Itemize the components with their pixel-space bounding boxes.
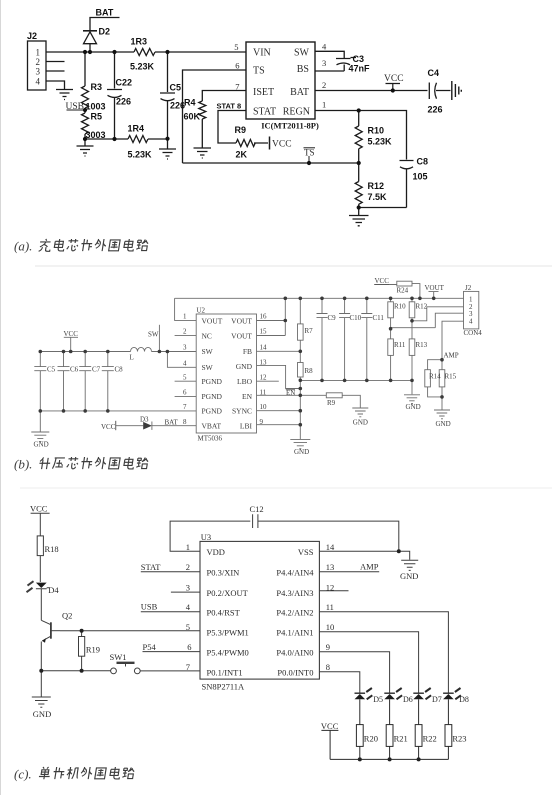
node dots R8 column (299, 387, 303, 391)
svg-text:P0.3/XIN: P0.3/XIN (207, 568, 240, 578)
svg-text:R12: R12 (416, 302, 428, 310)
svg-text:BS: BS (297, 64, 309, 75)
capacitor C8b (102, 352, 114, 411)
wire lower rail a (85, 138, 168, 140)
svg-text:5: 5 (186, 622, 190, 632)
junction dots section B (39, 297, 444, 427)
svg-text:P5.3/PWM1: P5.3/PWM1 (207, 628, 249, 638)
wire R12 bottom to C8 bottom (359, 207, 407, 209)
svg-text:SW: SW (148, 331, 159, 339)
svg-text:GND: GND (34, 441, 49, 449)
node dot R19 top (80, 629, 84, 633)
svg-text:3: 3 (183, 344, 187, 352)
svg-text:SN8P2711A: SN8P2711A (202, 681, 246, 691)
page left border (0, 0, 2, 795)
resistor R12 vertical (355, 163, 362, 208)
svg-text:C12: C12 (250, 504, 264, 514)
svg-text:ISET: ISET (253, 87, 274, 98)
chip U3 SN8P2711A box (200, 541, 319, 679)
ground under R15 (434, 410, 450, 419)
svg-text:D2: D2 (99, 27, 111, 37)
LED D6 (384, 688, 402, 725)
wire pin12 stub (319, 590, 348, 592)
svg-text:EN: EN (286, 389, 295, 397)
node USB junction (67, 109, 86, 111)
svg-text:VCC: VCC (64, 330, 79, 338)
svg-text:1R3: 1R3 (131, 37, 148, 47)
svg-text:R21: R21 (394, 734, 408, 744)
svg-text:12: 12 (260, 373, 268, 381)
svg-text:C3: C3 (353, 54, 365, 64)
svg-text:R23: R23 (452, 734, 466, 744)
wire bottom VCC rail (330, 758, 448, 760)
svg-text:STAT: STAT (141, 562, 161, 572)
wire base rail to pin5 (60, 630, 200, 632)
svg-text:R9: R9 (235, 125, 247, 135)
svg-text:VCC: VCC (101, 423, 116, 431)
svg-text:C8: C8 (115, 366, 124, 374)
svg-text:GND: GND (236, 362, 253, 371)
switch SW1 (111, 663, 141, 674)
connector J2 (28, 41, 47, 90)
svg-text:AMP: AMP (360, 562, 379, 572)
wire ISET to R4 (202, 91, 246, 102)
resistor R12b (409, 298, 415, 321)
node dot VCC-BAT (391, 88, 395, 92)
node dots FB (299, 350, 303, 354)
node dots main rail (83, 50, 87, 54)
wire pin9 to D6 (319, 652, 389, 693)
svg-text:1: 1 (36, 48, 41, 58)
junction dots section C (39, 549, 420, 761)
wire J2b pin3 route (391, 313, 464, 328)
svg-text:5: 5 (234, 42, 238, 52)
svg-text:REGN: REGN (283, 107, 310, 118)
svg-text:R3: R3 (91, 82, 103, 92)
svg-text:7.5K: 7.5K (368, 192, 388, 202)
resistor R3 vertical (82, 52, 89, 110)
svg-text:R22: R22 (423, 734, 437, 744)
svg-text:C22: C22 (116, 78, 133, 88)
ground under R8 column (290, 439, 310, 448)
wire REGN pin1 rail (315, 111, 407, 160)
svg-text:STAT: STAT (253, 107, 276, 118)
svg-text:226: 226 (116, 97, 131, 107)
ground under R13 (404, 395, 420, 404)
wire FB pin14 (257, 350, 301, 352)
svg-text:VCC: VCC (30, 504, 48, 514)
svg-text:3003: 3003 (86, 130, 106, 140)
svg-text:VCC: VCC (272, 140, 292, 150)
wire pin2 stub (46, 61, 65, 63)
ground under J2 pin4 (56, 90, 73, 100)
svg-text:6: 6 (187, 642, 191, 652)
svg-text:PGND: PGND (202, 377, 223, 386)
svg-text:VIN: VIN (253, 48, 271, 59)
node dot pin16 (284, 319, 288, 323)
wire pin1 VDD loop to C12 (170, 521, 250, 551)
svg-text:D4: D4 (48, 585, 59, 595)
svg-text:P0.2/XOUT: P0.2/XOUT (207, 588, 249, 598)
svg-text:BAT: BAT (96, 8, 114, 18)
wire pin16 pin15 to top rail (257, 298, 286, 335)
svg-text:EN: EN (242, 392, 253, 401)
svg-text:R12: R12 (368, 181, 385, 191)
svg-text:13: 13 (260, 358, 268, 366)
wire pin3 stub (171, 591, 200, 593)
capacitor C11 (361, 298, 372, 380)
capacitor C4 (429, 83, 450, 100)
svg-text:15: 15 (260, 328, 268, 336)
svg-text:9: 9 (260, 418, 264, 426)
resistor R22 (415, 725, 422, 760)
resistor R19 (79, 631, 85, 671)
capacitor C9 (317, 298, 328, 380)
svg-text:D7: D7 (432, 695, 442, 704)
LEDs and resistor ladder (321, 688, 461, 759)
svg-text:C5: C5 (170, 83, 182, 93)
svg-text:R11: R11 (394, 341, 406, 349)
node dots emitter rail (39, 669, 43, 673)
svg-text:GND: GND (353, 419, 368, 427)
texts section A (27, 8, 443, 203)
texts section B (34, 277, 483, 456)
svg-text:VOUT: VOUT (231, 316, 252, 325)
wire pin9 stub (257, 424, 301, 426)
ground under R12 (349, 208, 369, 226)
ground at R9b (352, 408, 368, 417)
svg-text:226: 226 (170, 101, 185, 111)
svg-text:3: 3 (36, 67, 41, 77)
inductor L (131, 347, 152, 351)
svg-text:VBAT: VBAT (202, 422, 222, 431)
svg-text:LBO: LBO (237, 377, 253, 386)
svg-text:R13: R13 (416, 341, 428, 349)
wire pin3 stub (46, 70, 65, 72)
svg-text:R10: R10 (368, 126, 385, 136)
svg-text:R4: R4 (184, 98, 196, 108)
ground under C5 (159, 139, 176, 159)
svg-text:7: 7 (183, 403, 187, 411)
svg-text:6: 6 (183, 389, 187, 397)
svg-text:2K: 2K (236, 150, 248, 160)
svg-text:13: 13 (326, 562, 335, 572)
svg-text:D5: D5 (373, 695, 383, 704)
node dot AMP (440, 358, 444, 362)
svg-text:TS: TS (253, 66, 265, 77)
wire pin11 EN to R9 (257, 394, 327, 396)
wire SW pin4 to C3 (315, 51, 344, 58)
svg-text:CON4: CON4 (464, 329, 483, 337)
svg-text:NC: NC (202, 331, 212, 340)
svg-text:AMP: AMP (444, 352, 459, 360)
svg-text:1R4: 1R4 (128, 124, 145, 134)
node dot C12-VSS (397, 549, 401, 553)
svg-text:8: 8 (183, 418, 187, 426)
svg-text:PGND: PGND (202, 407, 223, 416)
ground bottom left (31, 411, 49, 442)
svg-text:3: 3 (322, 58, 326, 68)
svg-text:47nF: 47nF (349, 64, 371, 74)
transistor Q2 (41, 620, 60, 671)
wire pin6 stub (175, 395, 197, 397)
svg-text:11: 11 (326, 602, 334, 612)
svg-text:5.23K: 5.23K (368, 137, 393, 147)
capacitor C22 (107, 52, 122, 139)
svg-text:105: 105 (413, 172, 428, 182)
wire mid rail b (300, 379, 412, 381)
resistor 1R4 horizontal (128, 136, 148, 143)
svg-text:4: 4 (36, 77, 41, 87)
svg-text:226: 226 (428, 105, 443, 115)
svg-text:USB: USB (66, 102, 84, 112)
section (c) image top border (20, 487, 552, 489)
resistor 1R3 horizontal (134, 49, 155, 56)
resistor R14 (425, 360, 442, 397)
svg-text:U2: U2 (197, 307, 206, 315)
svg-text:U3: U3 (201, 532, 211, 542)
svg-text:P0.0/INT0: P0.0/INT0 (277, 668, 313, 678)
resistor R10 vertical (355, 111, 362, 164)
diode D4 photodiode (27, 581, 50, 620)
caption (c) hanzi: dan pian ji wai wei dian lu (39, 767, 135, 779)
resistor R4 vertical (199, 101, 206, 148)
svg-text:R10: R10 (394, 302, 406, 310)
capacitor C6b (58, 352, 70, 411)
wire emitter rail (41, 670, 110, 672)
LED D8 (443, 688, 461, 725)
svg-text:VOUT: VOUT (425, 284, 445, 292)
wire pin1 loop to top rail (175, 298, 197, 320)
svg-text:L: L (130, 354, 134, 362)
svg-text:GND: GND (406, 403, 421, 411)
power VCC at D3 (115, 421, 117, 430)
svg-text:IC(MT2011-8P): IC(MT2011-8P) (261, 121, 319, 131)
svg-text:TS: TS (304, 148, 315, 158)
node TS label stub (308, 156, 310, 163)
caption (a) prefix (14, 239, 32, 254)
wire VBAT pin8 (116, 425, 197, 427)
junction dots section A (83, 50, 395, 210)
svg-text:Q2: Q2 (62, 611, 72, 621)
svg-text:P4.0/AIN0: P4.0/AIN0 (276, 647, 313, 657)
svg-text:16: 16 (260, 313, 268, 321)
svg-text:PGND: PGND (202, 392, 223, 401)
resistor R10b (388, 298, 394, 328)
wire pin8 to D5 (319, 672, 359, 693)
ground under R5 (77, 139, 94, 156)
node SW stub (158, 325, 160, 352)
caption (c) prefix (14, 767, 32, 782)
svg-text:5.23K: 5.23K (130, 62, 155, 72)
wire VSS pin14 to ground (319, 551, 409, 559)
node dots lower rail (83, 137, 87, 141)
svg-text:D6: D6 (403, 695, 413, 704)
svg-text:10: 10 (260, 403, 268, 411)
svg-text:C10: C10 (350, 314, 362, 322)
svg-text:4: 4 (469, 318, 473, 326)
caption (b) hanzi: sheng ya xin pian wai wei dian lu (39, 457, 149, 469)
svg-text:D3: D3 (140, 415, 149, 423)
svg-text:P4.2/AIN2: P4.2/AIN2 (276, 607, 313, 617)
power VOUT stub (429, 292, 439, 299)
wire pin2 stub (175, 335, 197, 337)
svg-text:C4: C4 (428, 68, 440, 78)
capacitor C5 (160, 52, 175, 139)
svg-text:P4.1/AIN1: P4.1/AIN1 (276, 628, 313, 638)
svg-text:VCC: VCC (375, 277, 390, 285)
wire STAT to R9 (218, 111, 246, 144)
wire TS net (183, 70, 359, 163)
wire pin10 to D7 (319, 632, 418, 693)
wire pin4 to ground (46, 81, 65, 89)
wire J2b pin2 route (412, 307, 464, 321)
svg-text:5.23K: 5.23K (128, 150, 153, 160)
svg-text:R7: R7 (305, 327, 314, 335)
power VCC on BAT rail (386, 84, 401, 91)
power VCC bar at R9 (269, 137, 271, 150)
resistor R21 (386, 725, 393, 760)
svg-text:5: 5 (183, 373, 187, 381)
svg-text:P5.4/PWM0: P5.4/PWM0 (207, 647, 249, 657)
svg-text:1: 1 (186, 542, 190, 552)
svg-text:R9: R9 (327, 399, 336, 407)
wire SW1 to pin7 (140, 670, 200, 672)
svg-text:2: 2 (186, 562, 190, 572)
wire pin1 J2 to VIN (46, 51, 246, 53)
resistor R23 (445, 725, 452, 760)
resistor R24 (374, 281, 420, 298)
wire left VCC rail to pin3 (40, 351, 196, 353)
diode D3 (143, 422, 152, 430)
node dot USB (83, 108, 87, 112)
wire R13 to ground (411, 380, 413, 394)
capacitor C7b (79, 352, 91, 411)
svg-text:8: 8 (326, 662, 330, 672)
capacitor C10 (339, 298, 350, 380)
svg-text:SYNC: SYNC (232, 407, 252, 416)
caption (b) prefix (14, 457, 32, 472)
capacitor C12 (253, 514, 258, 528)
ground bars after C4 (452, 81, 462, 100)
svg-text:2: 2 (322, 80, 326, 90)
svg-text:J2: J2 (27, 31, 37, 41)
node dots REGN rail (357, 108, 361, 112)
svg-text:P4.3/AIN3: P4.3/AIN3 (276, 588, 313, 598)
svg-text:STAT 8: STAT 8 (217, 102, 242, 111)
node dots bottom rail (358, 757, 362, 761)
wire C12 to VSS (258, 521, 399, 551)
node dot R14 R15 bottom (440, 395, 444, 399)
svg-text:1003: 1003 (86, 102, 106, 112)
svg-text:SW: SW (202, 347, 214, 356)
resistor R18 (37, 536, 43, 582)
svg-text:P0.4/RST: P0.4/RST (207, 607, 241, 617)
wire P54 to pin6 (143, 651, 201, 653)
node dots TS rail (307, 161, 311, 165)
wire pin13 GND route (257, 365, 301, 388)
svg-text:LBI: LBI (240, 422, 253, 431)
svg-text:C5: C5 (47, 366, 56, 374)
wire pin10 stub (257, 410, 301, 412)
wire R8 down to ground (299, 380, 301, 439)
wire pin11 to D8 (319, 612, 448, 693)
svg-text:VOUT: VOUT (202, 316, 223, 325)
svg-text:C9: C9 (328, 314, 337, 322)
svg-text:14: 14 (260, 344, 268, 352)
svg-text:(c).: (c). (14, 767, 32, 782)
wire J2b pin4 route to AMP (442, 321, 464, 360)
svg-text:12: 12 (326, 582, 335, 592)
wire BAT net (90, 18, 120, 31)
texts section C (30, 504, 469, 744)
svg-text:P54: P54 (143, 642, 157, 652)
ground bottom left c (32, 671, 51, 707)
svg-text:6: 6 (235, 61, 239, 71)
svg-text:1: 1 (322, 100, 326, 110)
svg-text:GND: GND (436, 420, 451, 428)
wire pin5 stub (175, 380, 197, 382)
LED D7 (413, 688, 431, 725)
resistor R7 (298, 298, 304, 351)
svg-text:SW: SW (294, 48, 310, 59)
svg-text:GND: GND (33, 709, 51, 719)
svg-text:3: 3 (186, 582, 190, 592)
node dots left rail (39, 350, 43, 354)
svg-text:BAT: BAT (290, 87, 309, 98)
svg-text:R8: R8 (305, 367, 314, 375)
svg-text:C11: C11 (373, 314, 385, 322)
svg-text:R5: R5 (91, 112, 103, 122)
node dots lower left rail (39, 409, 43, 413)
svg-text:MT5036: MT5036 (198, 435, 223, 443)
resistor R11b (388, 329, 394, 381)
svg-text:C8: C8 (417, 157, 429, 167)
svg-text:C7: C7 (92, 366, 101, 374)
svg-text:(b).: (b). (14, 457, 32, 472)
resistor R8 (298, 351, 304, 380)
svg-text:1: 1 (183, 313, 187, 321)
svg-text:7: 7 (186, 662, 190, 672)
wire BAT pin2 rail (315, 90, 428, 92)
svg-text:VSS: VSS (298, 547, 314, 557)
svg-text:VOUT: VOUT (231, 331, 252, 340)
svg-text:C6: C6 (70, 366, 79, 374)
svg-text:14: 14 (326, 542, 335, 552)
wire STAT to pin2 (141, 571, 200, 573)
power VCC left (64, 337, 78, 351)
capacitor C3 (315, 58, 356, 72)
svg-text:VCC: VCC (321, 721, 339, 731)
resistor R13b (409, 321, 415, 381)
svg-text:R20: R20 (364, 734, 378, 744)
LED D5 (355, 688, 373, 725)
resistor R9b (326, 393, 360, 408)
svg-text:VCC: VCC (384, 74, 404, 84)
svg-text:FB: FB (243, 347, 252, 356)
ground under R4 (194, 148, 212, 158)
wire pin4 branch (167, 352, 196, 368)
power VCC bottom (321, 730, 338, 759)
svg-text:11: 11 (260, 389, 267, 397)
power VCC top left c (31, 513, 50, 536)
wire pin13 to AMP (319, 571, 379, 573)
svg-text:P4.4/AIN4: P4.4/AIN4 (276, 568, 314, 578)
ground at VSS (401, 560, 418, 570)
chip U2 MT5036 box (196, 314, 256, 433)
section (b) image top border (35, 265, 552, 267)
wire top rail VOUT (175, 297, 464, 299)
